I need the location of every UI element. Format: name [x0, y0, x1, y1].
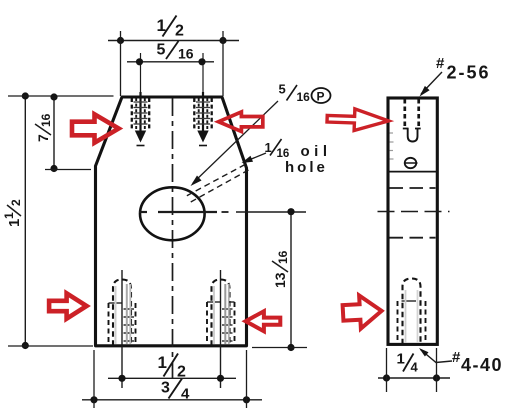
tapped hole #4-40 (side view bottom) [398, 279, 426, 345]
svg-text:5: 5 [279, 82, 286, 97]
svg-text:#: # [436, 55, 445, 72]
dimension text 3/4 bottom [161, 379, 190, 403]
tapped hole bottom-left (front view) [109, 270, 136, 388]
dimension 1/2 bottom: line and dots [108, 375, 236, 382]
svg-text:2: 2 [175, 23, 184, 40]
red arrow side-bottom (points right) [342, 294, 382, 329]
side view hidden line (hole top) [390, 187, 436, 189]
dimension 5/16 top: line and dots [127, 58, 214, 65]
oil hole circle (side view) [405, 158, 417, 168]
tapped hole top-right (front view) [194, 53, 211, 146]
label 5/16 P with leader to circle [191, 82, 331, 187]
dimension text 7/16 left (rotated) [35, 113, 53, 142]
svg-text:1: 1 [2, 212, 16, 219]
red arrow top-right (points left) [219, 112, 263, 132]
side view left edge ticks [390, 133, 394, 159]
red arrow middle (points right at side view) [327, 108, 389, 132]
svg-text:2: 2 [9, 199, 23, 206]
svg-text:16: 16 [178, 46, 194, 62]
tapped hole bottom-right (front view) [207, 270, 235, 388]
label 1/16 oil hole with leader [242, 139, 332, 176]
svg-text:2-56: 2-56 [447, 63, 491, 83]
dimension text 1/4 side [397, 351, 419, 375]
svg-text:16: 16 [39, 113, 53, 127]
red arrow bottom-right (points left) [246, 311, 281, 331]
dimension 3/4 bottom: line and dots [82, 350, 262, 408]
svg-text:1: 1 [397, 351, 405, 368]
tapped hole #2-56 (side view top) [403, 99, 421, 142]
side view hidden line (hole bottom) [390, 237, 436, 239]
dimension 1/2 top: line and dots [108, 31, 239, 96]
dimension text 13/16 right (rotated) [272, 250, 290, 288]
front view outline [96, 97, 247, 346]
red arrow top-left (points right) [72, 114, 119, 142]
svg-text:13: 13 [272, 272, 288, 288]
svg-text:3: 3 [161, 380, 170, 397]
svg-text:1: 1 [158, 353, 167, 372]
dimension 1/4 side view bottom [378, 348, 450, 392]
dimension 7/16 left: line and dots [45, 93, 91, 172]
dimension 13/16 right: line and dots [252, 208, 307, 351]
svg-text:oil: oil [301, 143, 332, 160]
dimension text 1-1/2 left (rotated) [2, 199, 23, 227]
center hole circle 5/16 [140, 187, 205, 240]
label #2-56 with leader [420, 55, 491, 97]
svg-text:7: 7 [35, 134, 51, 142]
horizontal centerline of circle [139, 211, 306, 213]
front view vertical centerline [172, 98, 174, 378]
svg-text:16: 16 [297, 90, 311, 104]
label #4-40 with leader [419, 348, 503, 375]
svg-text:P: P [317, 90, 325, 104]
dimension text 1/2 bottom [158, 353, 187, 381]
svg-text:4: 4 [181, 386, 190, 403]
svg-text:#: # [452, 349, 461, 366]
svg-text:5: 5 [157, 42, 166, 59]
red arrow bottom-left (points right) [49, 293, 87, 318]
dimension text 1/2 top [157, 16, 185, 40]
svg-text:4: 4 [411, 360, 419, 375]
svg-text:2: 2 [177, 364, 186, 381]
side view solid step line [388, 171, 437, 173]
side view outline [388, 98, 437, 344]
tapped hole top-left (front view) [132, 53, 149, 146]
svg-text:4-40: 4-40 [461, 355, 503, 375]
svg-text:hole: hole [285, 159, 328, 176]
dimension 1-1/2 left: line and dots [8, 92, 114, 349]
side view horizontal centerline [378, 211, 450, 213]
dimension text 5/16 top [157, 41, 194, 62]
svg-text:16: 16 [276, 250, 290, 264]
oil hole dashed lines into circle [185, 165, 246, 198]
